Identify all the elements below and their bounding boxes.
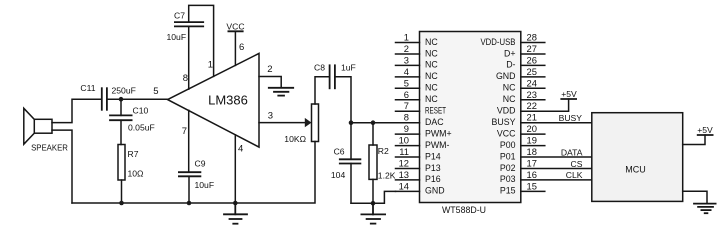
wire pin 3 to potentiometer wiper (259, 122, 307, 124)
pin 27 D+ (521, 53, 545, 55)
capacitor C9 (179, 172, 201, 176)
svg-text:10uF: 10uF (195, 180, 215, 190)
svg-text:WT588D-U: WT588D-U (442, 205, 486, 215)
wire C6/R2 bottom to pin 14 GND (351, 191, 396, 203)
pin 20 VCC (521, 133, 545, 135)
capacitor C10 (110, 99, 132, 144)
svg-text:7: 7 (182, 126, 187, 137)
svg-text:24: 24 (527, 77, 537, 88)
pin 24 NC (521, 87, 545, 89)
svg-text:P00: P00 (500, 140, 516, 150)
svg-text:P14: P14 (425, 151, 441, 161)
pin 13 P16 (396, 179, 420, 181)
svg-text:C11: C11 (80, 83, 95, 93)
pin 14 GND stub (396, 190, 420, 192)
svg-text:3: 3 (404, 54, 409, 65)
svg-text:1: 1 (404, 31, 409, 42)
wire ground rail (72, 142, 315, 204)
svg-text:11: 11 (399, 146, 409, 157)
svg-text:13: 13 (399, 169, 409, 180)
svg-text:19: 19 (527, 135, 537, 146)
svg-text:1: 1 (208, 60, 213, 71)
svg-text:7: 7 (404, 100, 409, 111)
svg-text:14: 14 (399, 180, 409, 191)
wire speaker top to C11 (52, 99, 102, 122)
svg-text:26: 26 (527, 54, 537, 65)
node junction C10 tap (119, 97, 124, 102)
svg-text:8: 8 (183, 73, 188, 84)
potentiometer 10K (312, 104, 319, 142)
svg-text:10KΩ: 10KΩ (284, 134, 306, 144)
pin 2 NC (396, 53, 420, 55)
node rail R7 (119, 201, 124, 206)
svg-text:NC: NC (425, 94, 438, 104)
signal labels to MCU (559, 113, 583, 180)
node rail C9 (187, 201, 192, 206)
op-amp U1 LM386 (168, 53, 259, 147)
svg-text:1.2K: 1.2K (378, 171, 396, 181)
chip pin numbers right (527, 31, 537, 191)
wire speaker bottom to ground rail (52, 130, 72, 203)
svg-text:3: 3 (268, 111, 273, 122)
svg-text:SPEAKER: SPEAKER (31, 143, 68, 152)
svg-text:2: 2 (404, 43, 409, 54)
pin 9 PWM+ (396, 133, 420, 135)
svg-text:PWM+: PWM+ (425, 128, 452, 138)
svg-text:25: 25 (527, 66, 537, 77)
svg-text:NC: NC (503, 94, 516, 104)
svg-text:RESET: RESET (425, 106, 446, 116)
svg-text:VCC: VCC (497, 128, 516, 138)
svg-text:P03: P03 (500, 174, 516, 184)
pin 26 D- (521, 64, 545, 66)
svg-text:16: 16 (527, 169, 537, 180)
svg-text:BUSY: BUSY (492, 117, 516, 127)
power +5V (pin 22) (561, 98, 576, 100)
svg-text:20: 20 (527, 123, 537, 134)
svg-text:9: 9 (404, 123, 409, 134)
chip pin numbers left (399, 31, 409, 191)
power +5V (MCU) (683, 135, 713, 145)
svg-text:CLK: CLK (566, 170, 583, 180)
svg-text:C9: C9 (195, 159, 206, 169)
ground (MCU) (683, 191, 716, 213)
svg-text:LM386: LM386 (208, 93, 248, 108)
pin 17 P02 wire CS to MCU (521, 168, 592, 170)
node ground junction (371, 201, 376, 206)
svg-text:12: 12 (399, 158, 409, 169)
ground (C6/R2) (361, 203, 385, 223)
svg-text:10uF: 10uF (167, 32, 187, 42)
pin 19 P00 (521, 145, 545, 147)
wire C7 top over to pin 1 (189, 5, 214, 76)
svg-text:10: 10 (399, 135, 409, 146)
pin 3 NC (396, 64, 420, 66)
svg-text:C6: C6 (334, 147, 345, 157)
pin 15 P15 (521, 190, 545, 192)
chip pin names left (425, 37, 452, 196)
capacitor C6 (340, 123, 361, 204)
node rail pin4/ground (233, 201, 238, 206)
svg-text:NC: NC (425, 71, 438, 81)
svg-text:15: 15 (527, 180, 537, 191)
svg-text:2: 2 (267, 64, 272, 75)
svg-text:104: 104 (331, 170, 346, 180)
svg-text:CS: CS (571, 159, 583, 169)
pin 18 P01 wire DATA to MCU (521, 156, 592, 158)
svg-text:P15: P15 (500, 186, 516, 196)
svg-text:22: 22 (527, 100, 537, 111)
svg-text:C10: C10 (133, 106, 149, 116)
chip pin names right (481, 37, 517, 196)
svg-text:GND: GND (425, 186, 445, 196)
svg-text:17: 17 (527, 158, 537, 169)
svg-text:C7: C7 (174, 11, 185, 21)
svg-text:C8: C8 (314, 63, 325, 73)
capacitor C11 (102, 88, 107, 110)
svg-text:28: 28 (527, 31, 537, 42)
svg-text:8: 8 (404, 112, 409, 123)
svg-text:1uF: 1uF (341, 63, 356, 73)
svg-text:D+: D+ (504, 48, 516, 58)
ground (pin 2) (269, 88, 293, 96)
capacitor C7 (175, 22, 203, 26)
svg-text:4: 4 (238, 144, 243, 155)
svg-text:18: 18 (527, 146, 537, 157)
svg-text:5: 5 (404, 77, 409, 88)
svg-text:5: 5 (153, 86, 158, 97)
wire pin 7 to C9 (188, 110, 190, 172)
svg-text:21: 21 (527, 112, 537, 123)
svg-text:GND: GND (496, 71, 516, 81)
potentiometer wiper arrow (305, 118, 312, 127)
svg-text:+5V: +5V (561, 89, 577, 99)
pin 5 NC (396, 87, 420, 89)
svg-text:P13: P13 (425, 163, 441, 173)
svg-text:250uF: 250uF (112, 86, 136, 96)
wire pin 4 to rail (234, 135, 236, 203)
node DAC R2 tap (371, 120, 376, 125)
wire C11 to LM386 pin5 (107, 98, 168, 100)
pin 8 DAC stub (396, 122, 420, 124)
pin 23 NC (521, 99, 545, 101)
pin 28 VDD-USB (521, 42, 545, 44)
svg-text:NC: NC (503, 83, 516, 93)
ground (LM386 rail) (224, 203, 247, 224)
svg-text:NC: NC (425, 83, 438, 93)
svg-text:VDD-USB: VDD-USB (481, 37, 516, 47)
wire C8 to DAC net (335, 77, 351, 123)
svg-text:4: 4 (404, 66, 409, 77)
pin 11 P14 (396, 156, 420, 158)
svg-text:DATA: DATA (561, 148, 583, 158)
MCU block (592, 113, 683, 202)
svg-text:27: 27 (527, 43, 537, 54)
resistor R7 (118, 145, 125, 181)
svg-text:VDD: VDD (497, 106, 516, 116)
resistor R2 (369, 123, 377, 204)
svg-text:23: 23 (527, 89, 537, 100)
wire C9 bottom to rail (188, 176, 190, 203)
svg-text:6: 6 (404, 89, 409, 100)
wire R7 bottom to rail (121, 180, 123, 203)
pin 21 BUSY wire to MCU (521, 122, 592, 124)
pin 25 GND (521, 76, 545, 78)
wire DAC net to pin 8 (351, 122, 396, 124)
svg-text:10Ω: 10Ω (128, 169, 145, 179)
svg-text:NC: NC (425, 48, 438, 58)
speaker SPEAKER (24, 108, 52, 144)
svg-text:6: 6 (239, 42, 244, 53)
svg-text:P16: P16 (425, 174, 441, 184)
svg-text:NC: NC (425, 60, 438, 70)
pin 1 NC (396, 42, 420, 44)
pin 10 PWM- (396, 145, 420, 147)
node DAC C6 tap (349, 120, 354, 125)
pin 16 P03 wire CLK to MCU (521, 179, 592, 181)
svg-text:BUSY: BUSY (559, 113, 583, 123)
pin 7 RESET (396, 110, 420, 112)
wire pin 2 stub (259, 77, 281, 88)
svg-text:MCU: MCU (625, 165, 646, 175)
svg-text:P01: P01 (500, 151, 516, 161)
pin 22 VDD wire to +5V (521, 99, 569, 111)
pin 12 P13 (396, 168, 420, 170)
power VCC (228, 31, 242, 65)
capacitor C8 (330, 65, 335, 88)
svg-text:R7: R7 (128, 149, 139, 159)
IC U2 WT588D-U body (420, 32, 521, 203)
svg-text:0.05uF: 0.05uF (128, 123, 155, 133)
svg-text:+5V: +5V (697, 125, 713, 135)
wire pot top to C8 (315, 77, 329, 104)
svg-text:NC: NC (425, 37, 438, 47)
pin 4 NC (396, 76, 420, 78)
svg-text:PWM-: PWM- (425, 140, 449, 150)
svg-text:R2: R2 (378, 146, 389, 156)
pin 6 NC (396, 99, 420, 101)
svg-text:D-: D- (506, 60, 515, 70)
svg-text:P02: P02 (500, 163, 516, 173)
svg-text:DAC: DAC (425, 117, 444, 127)
wire pin 8 to C7 (188, 26, 190, 89)
svg-text:VCC: VCC (226, 22, 244, 32)
